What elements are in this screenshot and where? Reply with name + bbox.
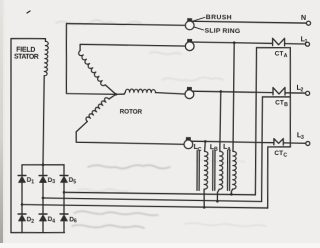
junction tap at leg D5 bbox=[63, 191, 66, 194]
wire rotor neutral from star point to slip ring 1 bbox=[65, 24, 185, 96]
wire dropper from L3 junction to LC coil bbox=[204, 141, 207, 151]
rotor winding phase coil lower diagonal bbox=[86, 97, 109, 121]
field stator winding coil bbox=[44, 41, 48, 76]
diode D6 cathode bar bbox=[60, 213, 68, 215]
terminal L3 bbox=[306, 141, 310, 145]
diode D2 cathode bar bbox=[18, 213, 26, 215]
wire bridge negative rail (bottom) bbox=[11, 232, 65, 233]
junction LA to phase A tap bbox=[230, 193, 233, 196]
junction field lead to positive rail bbox=[42, 163, 45, 166]
leader line from BRUSH label to brush 1 bbox=[193, 17, 205, 21]
wire dropper from L1 junction to LA coil bbox=[233, 43, 235, 152]
diode D2 triangle bbox=[18, 214, 25, 221]
wire lower coil to slip ring 4 bbox=[76, 121, 185, 144]
wire star point to lower coil bbox=[109, 94, 116, 99]
CT CTC primary zigzag bbox=[274, 138, 284, 145]
wire phase tap from leg D3-D4 to LB and CTB bbox=[43, 198, 262, 201]
wire bridge positive rail bbox=[22, 164, 64, 165]
wire CTA secondary leg down to phase A tap bbox=[255, 48, 258, 195]
junction tap at leg D3 bbox=[42, 197, 45, 200]
core line 2 of inductor LB bbox=[213, 150, 216, 190]
diode D3 cathode bar bbox=[39, 174, 47, 176]
wire cathode lead diode D3 bbox=[42, 165, 44, 176]
junction rotor star point bbox=[115, 93, 118, 96]
svg-text:N: N bbox=[301, 13, 307, 22]
diode D4 cathode bar bbox=[39, 213, 47, 215]
wire bridge leg through diode D5 to lower diode bbox=[63, 183, 66, 214]
inductor LA winding coil bbox=[233, 151, 237, 189]
wire CTC to terminal L3 bbox=[283, 142, 305, 144]
wire phase output brush 2 to CTA bbox=[192, 42, 272, 43]
core line 1 of inductor LA bbox=[226, 150, 229, 190]
wire CTA secondary top edge bbox=[256, 46, 290, 49]
junction LB to phase B tap bbox=[216, 200, 219, 203]
diode D3 triangle bbox=[39, 176, 46, 183]
wire anode lead diode D4 to negative rail bbox=[42, 221, 44, 233]
brush on slip ring 2 bbox=[187, 39, 191, 42]
diode D1 triangle bbox=[18, 176, 25, 183]
terminal N bbox=[306, 21, 310, 25]
wire upper coil to star point bbox=[105, 85, 116, 94]
rotor winding phase coil upper diagonal bbox=[78, 51, 106, 86]
rotor winding phase coil middle horizontal bbox=[125, 89, 155, 93]
wire dropper from L2 junction to LB coil bbox=[220, 92, 221, 152]
brush on slip ring 3 bbox=[187, 87, 191, 90]
wire LC coil bottom lead to phase C tap bbox=[203, 189, 206, 207]
stray ink tick top left (decorative) bbox=[27, 11, 30, 13]
slip ring 4 bbox=[184, 140, 193, 149]
wire slip ring 2 phase lead corner bbox=[80, 44, 185, 52]
wire CTB secondary leg down to phase B tap bbox=[261, 97, 263, 202]
leader line from SLIP RING label to slip ring 1 bbox=[195, 27, 204, 30]
CT CTA primary zigzag bbox=[273, 38, 285, 46]
core line 1 of inductor LB bbox=[211, 150, 214, 190]
wire CTC secondary leg down to phase C tap bbox=[267, 147, 268, 208]
slip ring 2 bbox=[185, 42, 194, 51]
wire bridge leg through diode D3 to lower diode bbox=[42, 183, 45, 214]
inductor LB winding coil bbox=[219, 151, 223, 189]
terminal L1 bbox=[305, 42, 309, 46]
wire bridge leg through diode D1 to lower diode bbox=[21, 183, 24, 214]
diode D5 triangle bbox=[60, 176, 67, 183]
terminal L2 bbox=[306, 91, 310, 95]
diode D4 triangle bbox=[39, 214, 46, 221]
paper bottom light strip bbox=[0, 243, 320, 248]
wire star point to middle coil bbox=[116, 93, 124, 95]
wire middle coil jog bbox=[124, 92, 125, 94]
wire neutral output from brush 1 to terminal N bbox=[192, 21, 306, 23]
diode D1 cathode bar bbox=[18, 174, 26, 176]
brush on slip ring 4 bbox=[186, 137, 190, 140]
wire CTB secondary top edge bbox=[262, 96, 290, 99]
svg-text:ROTOR: ROTOR bbox=[120, 109, 143, 116]
svg-text:STATOR: STATOR bbox=[14, 54, 39, 61]
wire phase tap from leg D1-D2 to LC and CTC bbox=[22, 205, 268, 208]
wire anode lead diode D2 to negative rail bbox=[21, 221, 23, 233]
core line 2 of inductor LA bbox=[228, 150, 231, 190]
wire LB coil bottom lead to phase B tap bbox=[217, 189, 219, 201]
junction LC to phase C tap bbox=[203, 206, 206, 209]
brush on slip ring 1 bbox=[187, 18, 191, 21]
wire phase tap from leg D5-D6 to LA and CTA bbox=[64, 192, 255, 195]
wire LA coil bottom lead to phase A tap bbox=[231, 189, 232, 194]
slip ring 3 bbox=[185, 90, 194, 99]
field stator frame (left edge and top edge) bbox=[8, 38, 45, 233]
wire CTA to terminal L1 bbox=[285, 43, 306, 45]
junction L1 line to LA dropper bbox=[233, 41, 236, 44]
wire cathode lead diode D5 bbox=[63, 165, 65, 176]
wire phase output brush 3 to CTB bbox=[192, 91, 273, 92]
wire CTB to terminal L2 bbox=[285, 92, 306, 94]
slip ring 1 bbox=[185, 21, 194, 30]
svg-text:BRUSH: BRUSH bbox=[206, 14, 232, 21]
CT CTB primary zigzag bbox=[273, 87, 285, 95]
diode D6 triangle bbox=[60, 214, 67, 221]
core line 2 of inductor LC bbox=[198, 150, 201, 190]
wire phase output brush 4 to CTC bbox=[191, 141, 274, 143]
junction L2 line to LB dropper bbox=[219, 90, 222, 93]
diode D5 cathode bar bbox=[60, 174, 68, 176]
wire field winding lead down to rectifier positive rail bbox=[43, 76, 44, 165]
junction L3 line to LC winding bbox=[204, 140, 207, 143]
core line 1 of inductor LC bbox=[196, 150, 199, 190]
junction tap at leg D1 bbox=[21, 203, 24, 206]
wire cathode lead diode D1 bbox=[21, 165, 23, 176]
inductor LC winding coil bbox=[204, 151, 208, 189]
wire anode lead diode D6 to negative rail bbox=[63, 221, 65, 233]
svg-text:SLIP RING: SLIP RING bbox=[205, 28, 241, 35]
wire middle coil to slip ring 3 bbox=[155, 93, 185, 94]
wire CTC secondary top edge bbox=[268, 146, 291, 149]
wire CT secondary common leg bbox=[289, 48, 292, 147]
faint page bleed-through marks (decorative) bbox=[56, 20, 266, 228]
